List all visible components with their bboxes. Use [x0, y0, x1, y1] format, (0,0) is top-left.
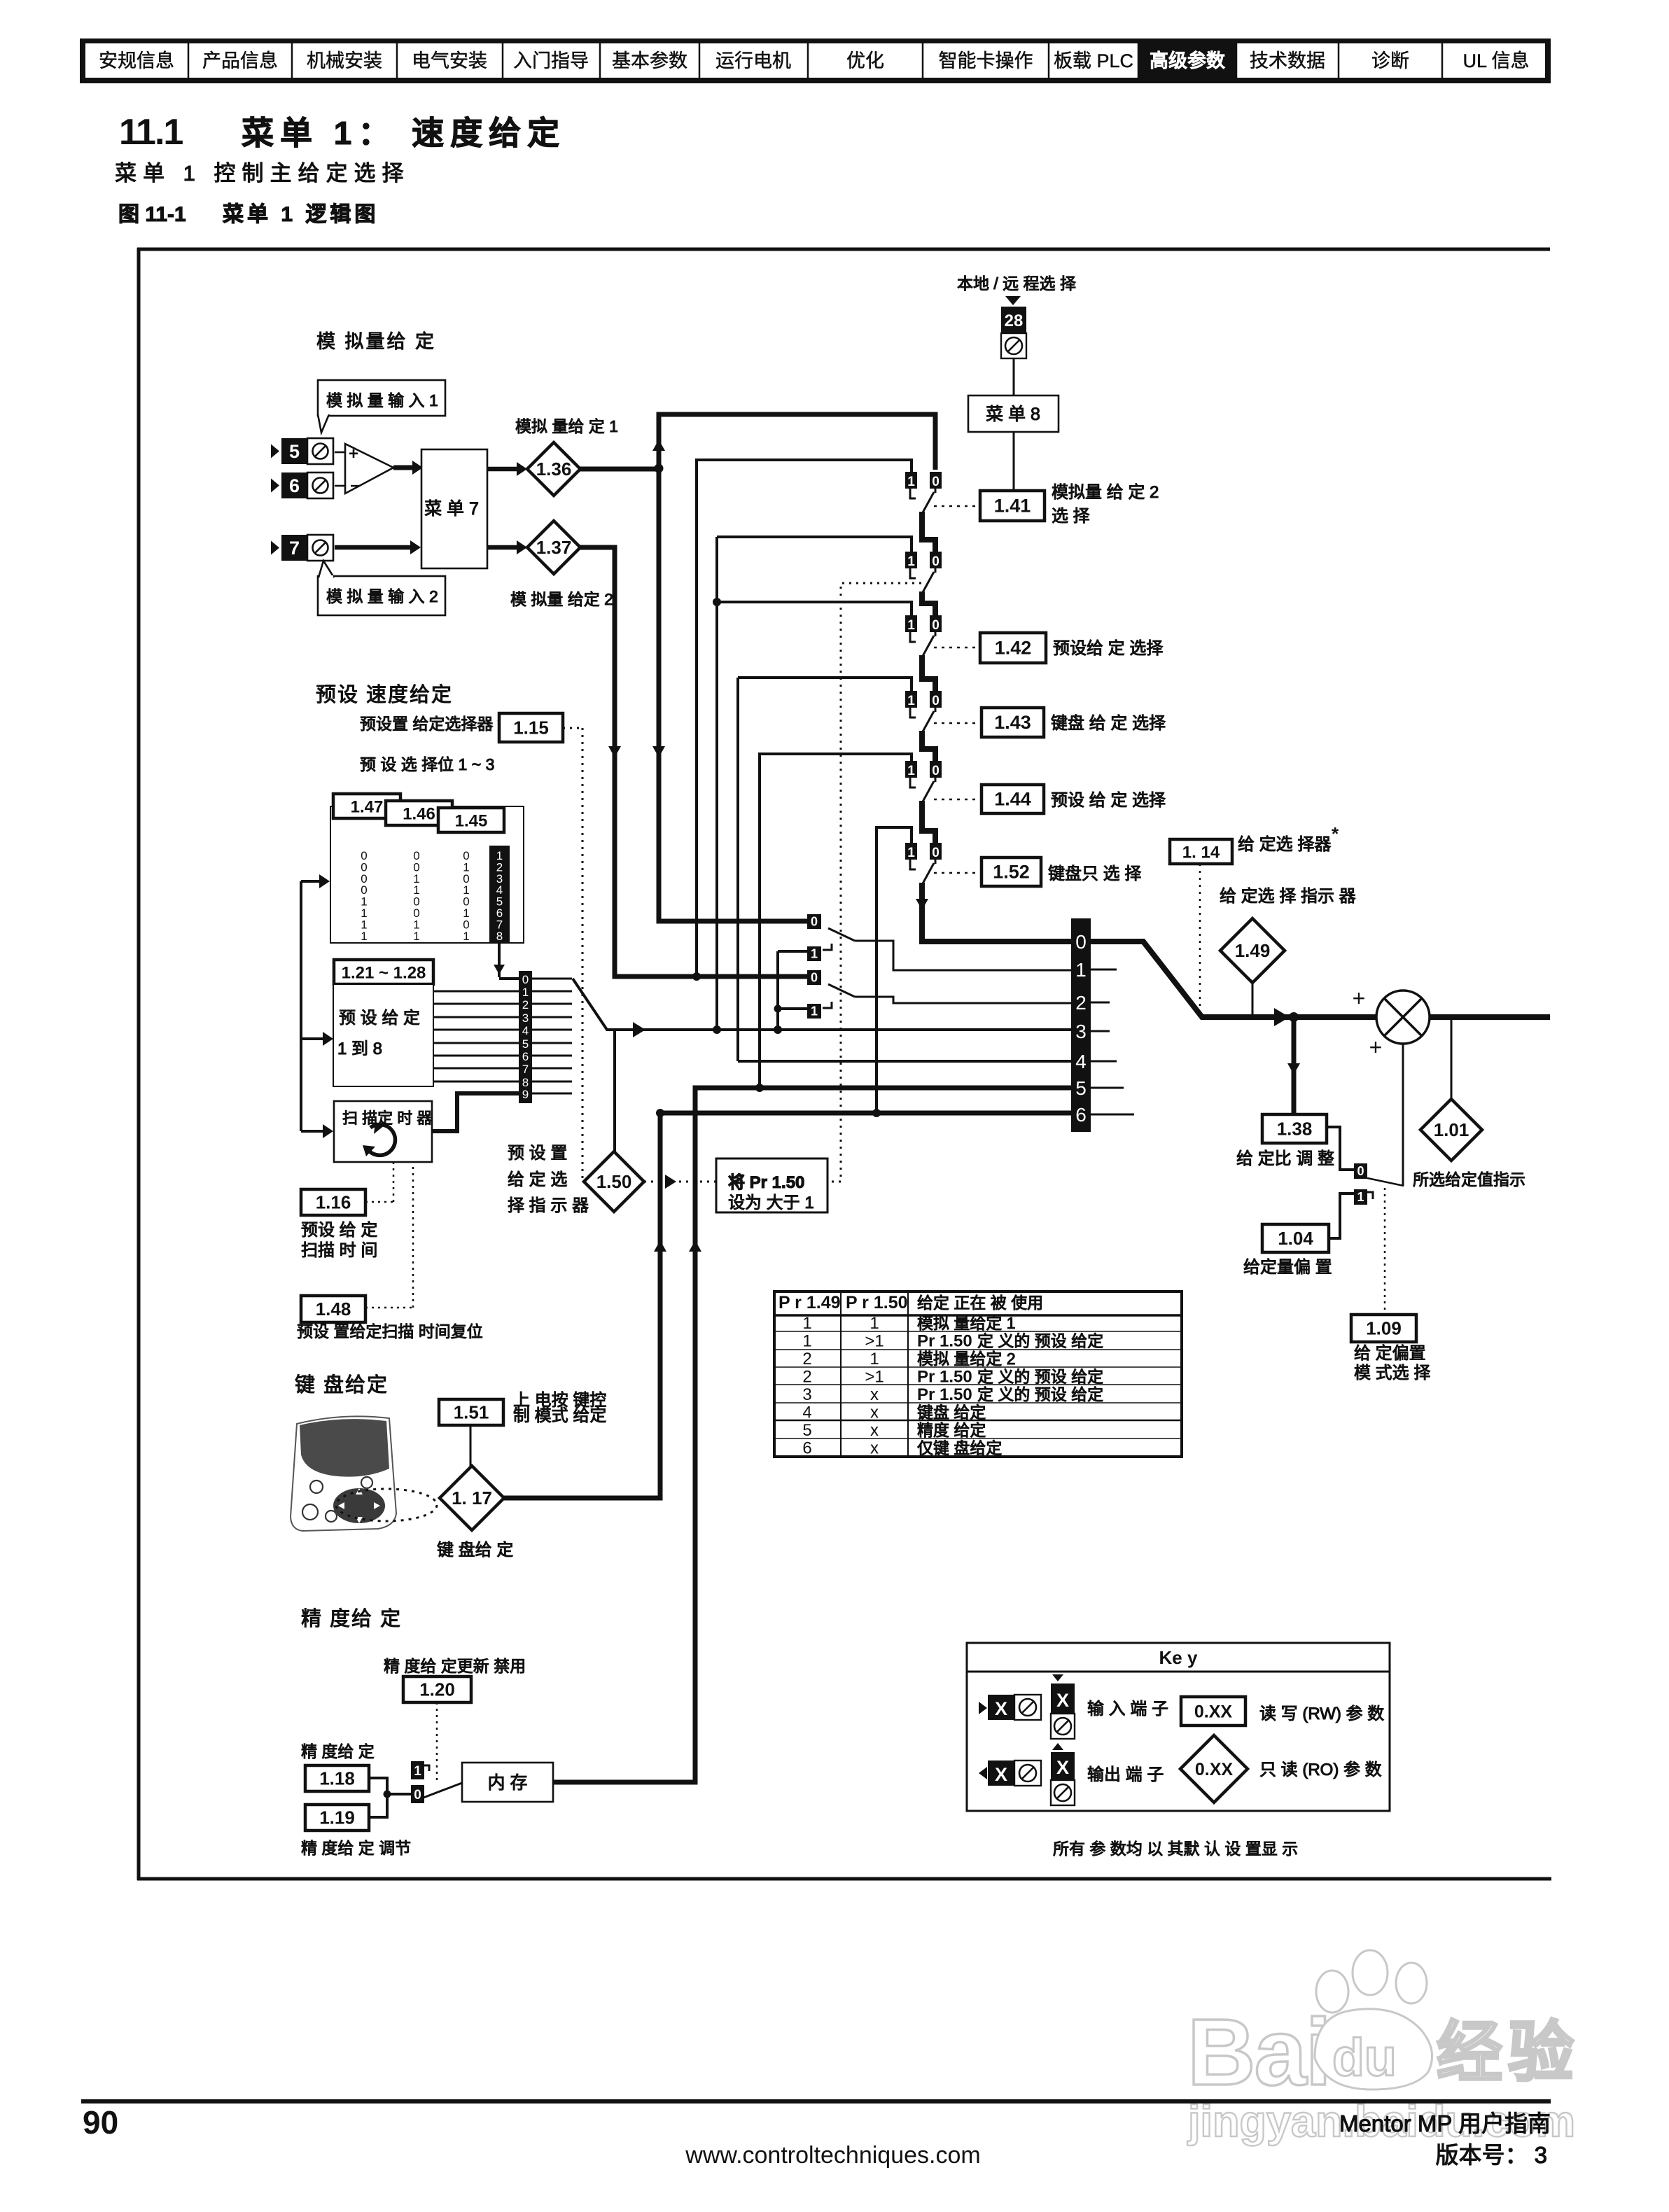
svg-text:>1: >1: [865, 1332, 884, 1351]
svg-text:0: 0: [522, 973, 529, 986]
svg-text:入门指导: 入门指导: [513, 50, 589, 71]
svg-text:1.50: 1.50: [596, 1171, 632, 1192]
svg-text:扫描 时 间: 扫描 时 间: [301, 1241, 377, 1260]
svg-text:给定 正在 被 使用: 给定 正在 被 使用: [917, 1294, 1043, 1312]
svg-text:读 写 (RW) 参 数: 读 写 (RW) 参 数: [1259, 1704, 1384, 1723]
svg-text:键盘 给定: 键盘 给定: [917, 1403, 986, 1422]
svg-text:给 定选 择 指示 器: 给 定选 择 指示 器: [1220, 887, 1356, 906]
svg-text:1.15: 1.15: [513, 717, 549, 738]
svg-text:定 义的 预设 给定: 定 义的 预设 给定: [977, 1385, 1103, 1403]
svg-text:仅键 盘给定: 仅键 盘给定: [917, 1439, 1002, 1457]
svg-text:0: 0: [811, 971, 818, 985]
svg-text:0: 0: [932, 618, 940, 633]
svg-text:X: X: [1056, 1757, 1069, 1778]
svg-text:1.01: 1.01: [1434, 1119, 1469, 1140]
svg-text:0: 0: [811, 915, 818, 929]
svg-text:只 读 (RO) 参 数: 只 读 (RO) 参 数: [1259, 1760, 1382, 1779]
svg-text:>1: >1: [865, 1368, 884, 1387]
svg-text:1. 17: 1. 17: [452, 1487, 492, 1508]
svg-text:Bai: Bai: [1187, 1999, 1330, 2105]
svg-text:电气安装: 电气安装: [412, 50, 487, 71]
svg-text:版本号： 3: 版本号： 3: [1435, 2142, 1547, 2168]
svg-text:所有 参 数均 以 其默 认 设 置显 示: 所有 参 数均 以 其默 认 设 置显 示: [1053, 1840, 1298, 1858]
svg-text:高级参数: 高级参数: [1150, 50, 1226, 71]
svg-text:运行电机: 运行电机: [715, 50, 791, 71]
svg-text:预 设 给 定: 预 设 给 定: [339, 1009, 420, 1028]
svg-text:模拟量 给 定 2: 模拟量 给 定 2: [1052, 483, 1159, 502]
svg-text:www.controltechniques.com: www.controltechniques.com: [685, 2142, 980, 2169]
svg-text:5: 5: [289, 441, 300, 462]
svg-text:给 定偏置: 给 定偏置: [1354, 1344, 1426, 1363]
svg-text:0.XX: 0.XX: [1195, 1760, 1234, 1779]
svg-text:0: 0: [932, 475, 940, 489]
svg-text:模 拟 量 输 入 1: 模 拟 量 输 入 1: [326, 391, 438, 409]
svg-text:1.16: 1.16: [316, 1192, 351, 1213]
svg-text:3: 3: [802, 1385, 811, 1404]
svg-text:精 度给 定更新 禁用: 精 度给 定更新 禁用: [384, 1657, 526, 1675]
svg-text:Pr 1.50: Pr 1.50: [917, 1368, 972, 1387]
svg-text:1.47: 1.47: [351, 798, 384, 817]
svg-text:1: 1: [463, 930, 469, 943]
svg-text:4: 4: [1075, 1051, 1087, 1072]
svg-text:制 模式 给定: 制 模式 给定: [513, 1406, 606, 1425]
svg-text:1.42: 1.42: [995, 638, 1032, 659]
svg-text:+: +: [1369, 1035, 1383, 1060]
svg-text:1: 1: [522, 986, 529, 999]
svg-text:x: x: [870, 1385, 879, 1404]
svg-text:1.52: 1.52: [993, 862, 1030, 883]
svg-text:3: 3: [1075, 1021, 1087, 1042]
svg-text:输出 端 子: 输出 端 子: [1087, 1765, 1164, 1784]
svg-text:7: 7: [289, 538, 300, 559]
svg-text:1: 1: [414, 1764, 421, 1779]
svg-text:+: +: [349, 444, 358, 463]
svg-text:智能卡操作: 智能卡操作: [939, 50, 1033, 71]
svg-text:x: x: [870, 1421, 879, 1440]
svg-text:给 定 选: 给 定 选: [508, 1170, 567, 1189]
svg-text:1. 14: 1. 14: [1182, 843, 1220, 862]
svg-text:4: 4: [802, 1403, 811, 1422]
svg-text:2: 2: [802, 1350, 811, 1368]
svg-text:Mentor MP 用户指南: Mentor MP 用户指南: [1339, 2110, 1551, 2136]
svg-text:1.48: 1.48: [316, 1298, 351, 1319]
svg-text:1: 1: [907, 694, 915, 708]
svg-text:X: X: [995, 1698, 1007, 1719]
svg-text:安规信息: 安规信息: [99, 50, 174, 71]
svg-text:模 拟 量 输 入 2: 模 拟 量 输 入 2: [326, 587, 438, 605]
svg-text:1: 1: [907, 764, 915, 778]
svg-text:1: 1: [907, 475, 915, 489]
svg-text:1: 1: [802, 1314, 811, 1333]
svg-text:7: 7: [522, 1063, 529, 1076]
svg-text:+: +: [1353, 986, 1366, 1011]
svg-text:1.38: 1.38: [1277, 1119, 1313, 1140]
svg-text:1.51: 1.51: [454, 1402, 489, 1423]
svg-text:菜单 1： 速度给定: 菜单 1： 速度给定: [242, 115, 566, 151]
svg-text:*: *: [1332, 823, 1339, 844]
svg-text:X: X: [1056, 1690, 1069, 1711]
svg-text:1.18: 1.18: [319, 1768, 355, 1789]
svg-text:1: 1: [811, 947, 818, 961]
svg-text:2: 2: [1075, 992, 1087, 1014]
svg-text:输 入 端 子: 输 入 端 子: [1087, 1700, 1168, 1718]
svg-text:1: 1: [1357, 1190, 1364, 1204]
svg-text:图 11-1: 图 11-1: [118, 203, 186, 226]
svg-text:1.36: 1.36: [536, 458, 572, 479]
svg-text:本地 / 远 程选 择: 本地 / 远 程选 择: [957, 274, 1076, 293]
svg-text:1.04: 1.04: [1278, 1228, 1313, 1249]
svg-text:技术数据: 技术数据: [1250, 50, 1325, 71]
svg-text:4: 4: [522, 1024, 529, 1037]
svg-text:Pr 1.50: Pr 1.50: [917, 1385, 972, 1404]
svg-text:2: 2: [802, 1368, 811, 1387]
svg-text:择 指 示 器: 择 指 示 器: [508, 1196, 589, 1215]
svg-text:1.49: 1.49: [1235, 940, 1271, 961]
svg-text:定 义的 预设 给定: 定 义的 预设 给定: [977, 1368, 1103, 1386]
svg-text:0.XX: 0.XX: [1194, 1702, 1233, 1722]
svg-text:1.20: 1.20: [419, 1679, 455, 1700]
svg-text:x: x: [870, 1403, 879, 1422]
svg-text:菜 单 7: 菜 单 7: [424, 499, 479, 519]
svg-text:0: 0: [932, 764, 940, 778]
svg-text:1.19: 1.19: [319, 1807, 355, 1828]
svg-text:优化: 优化: [846, 50, 884, 71]
svg-text:1 到 8: 1 到 8: [337, 1039, 382, 1058]
svg-text:模拟 量给定 1: 模拟 量给定 1: [917, 1314, 1016, 1332]
svg-text:键 盘给 定: 键 盘给 定: [437, 1541, 513, 1560]
svg-text:1.09: 1.09: [1366, 1318, 1402, 1339]
svg-text:菜 单 8: 菜 单 8: [986, 405, 1040, 424]
svg-text:1: 1: [907, 846, 915, 860]
svg-text:6: 6: [802, 1439, 811, 1458]
svg-text:菜单 1 控制主给定选择: 菜单 1 控制主给定选择: [115, 161, 410, 185]
svg-text:定 义的 预设 给定: 定 义的 预设 给定: [977, 1332, 1103, 1350]
svg-text:预 设 选 择位 1 ~ 3: 预 设 选 择位 1 ~ 3: [360, 755, 494, 773]
svg-text:0: 0: [414, 1788, 421, 1802]
svg-text:P r 1.49: P r 1.49: [778, 1293, 841, 1312]
svg-text:du: du: [1332, 2028, 1397, 2087]
svg-text:0: 0: [932, 554, 940, 569]
svg-text:1.46: 1.46: [403, 805, 435, 824]
svg-text:模 拟量 给定 2: 模 拟量 给定 2: [510, 590, 613, 608]
svg-text:1: 1: [802, 1332, 811, 1351]
svg-text:6: 6: [1075, 1104, 1087, 1126]
svg-text:1.43: 1.43: [994, 712, 1031, 733]
svg-text:模 拟量给 定: 模 拟量给 定: [316, 331, 436, 352]
svg-text:经验: 经验: [1437, 2015, 1579, 2089]
svg-text:板载 PLC: 板载 PLC: [1054, 50, 1133, 71]
svg-text:菜单 1 逻辑图: 菜单 1 逻辑图: [223, 203, 379, 226]
svg-text:−: −: [350, 477, 360, 496]
svg-text:1: 1: [870, 1314, 879, 1333]
svg-text:6: 6: [522, 1050, 529, 1063]
svg-text:5: 5: [1075, 1077, 1087, 1099]
svg-text:1: 1: [1075, 959, 1087, 981]
svg-text:1: 1: [811, 1004, 818, 1018]
svg-text:所选给定值指示: 所选给定值指示: [1413, 1170, 1525, 1189]
svg-text:预设给 定 选择: 预设给 定 选择: [1053, 639, 1163, 658]
svg-text:模拟 量给 定 1: 模拟 量给 定 1: [515, 417, 618, 435]
svg-text:UL 信息: UL 信息: [1462, 50, 1529, 71]
svg-text:1: 1: [413, 930, 419, 943]
svg-text:3: 3: [522, 1011, 529, 1025]
svg-text:键 盘给定: 键 盘给定: [295, 1373, 389, 1396]
svg-text:Pr 1.50: Pr 1.50: [917, 1332, 972, 1351]
svg-text:9: 9: [522, 1088, 529, 1101]
svg-text:6: 6: [289, 475, 300, 496]
svg-text:将 Pr 1.50: 将 Pr 1.50: [728, 1173, 804, 1192]
svg-text:键盘只 选 择: 键盘只 选 择: [1048, 864, 1141, 883]
svg-text:给 定比 调 整: 给 定比 调 整: [1236, 1149, 1334, 1168]
svg-text:2: 2: [522, 998, 529, 1011]
svg-text:90: 90: [83, 2104, 118, 2141]
svg-text:精 度给 定: 精 度给 定: [301, 1742, 375, 1760]
svg-text:1: 1: [907, 618, 915, 633]
svg-text:Ke y: Ke y: [1159, 1647, 1198, 1668]
svg-text:选 择: 选 择: [1052, 507, 1090, 526]
svg-text:P r 1.50: P r 1.50: [846, 1293, 908, 1312]
svg-text:X: X: [995, 1764, 1007, 1785]
svg-text:预设 速度给定: 预设 速度给定: [316, 683, 453, 706]
svg-text:1.41: 1.41: [994, 496, 1031, 517]
svg-text:基本参数: 基本参数: [612, 50, 687, 71]
svg-text:1.21 ~ 1.28: 1.21 ~ 1.28: [342, 964, 426, 983]
svg-text:1: 1: [870, 1350, 879, 1368]
svg-text:1.45: 1.45: [455, 812, 488, 831]
svg-text:28: 28: [1005, 311, 1024, 330]
svg-text:5: 5: [802, 1421, 811, 1440]
svg-text:给 定选 择器: 给 定选 择器: [1238, 835, 1331, 854]
svg-text:1.37: 1.37: [536, 537, 572, 558]
svg-text:诊断: 诊断: [1371, 50, 1409, 71]
svg-text:给定量偏 置: 给定量偏 置: [1243, 1258, 1332, 1277]
svg-text:预设 给 定 选择: 预设 给 定 选择: [1051, 791, 1166, 810]
svg-text:1: 1: [907, 554, 915, 569]
svg-text:1.44: 1.44: [994, 789, 1031, 810]
svg-text:精度 给定: 精度 给定: [917, 1421, 986, 1439]
svg-text:设为 大于 1: 设为 大于 1: [728, 1193, 814, 1212]
svg-text:0: 0: [1357, 1164, 1364, 1178]
svg-text:预设 给 定: 预设 给 定: [301, 1221, 377, 1240]
svg-text:5: 5: [522, 1037, 529, 1051]
svg-text:预设 置给定扫描 时间复位: 预设 置给定扫描 时间复位: [297, 1322, 483, 1340]
svg-text:0: 0: [932, 846, 940, 860]
svg-text:预 设 置: 预 设 置: [508, 1144, 567, 1163]
svg-text:11.1: 11.1: [119, 112, 183, 153]
svg-text:模 式选 择: 模 式选 择: [1354, 1364, 1430, 1382]
svg-text:0: 0: [932, 694, 940, 708]
svg-text:模拟 量给定 2: 模拟 量给定 2: [917, 1350, 1016, 1368]
svg-text:产品信息: 产品信息: [202, 50, 278, 71]
svg-text:预设置 给定选择器 *: 预设置 给定选择器 *: [360, 715, 504, 733]
svg-text:x: x: [870, 1439, 879, 1458]
svg-text:键盘 给 定 选择: 键盘 给 定 选择: [1051, 714, 1166, 733]
svg-text:8: 8: [496, 930, 503, 943]
svg-text:精 度给 定 调节: 精 度给 定 调节: [301, 1839, 411, 1857]
svg-text:机械安装: 机械安装: [307, 50, 382, 71]
svg-text:内 存: 内 存: [488, 1773, 528, 1793]
svg-text:1: 1: [361, 930, 367, 943]
svg-text:0: 0: [1075, 931, 1087, 953]
svg-text:精 度给 定: 精 度给 定: [301, 1607, 402, 1630]
